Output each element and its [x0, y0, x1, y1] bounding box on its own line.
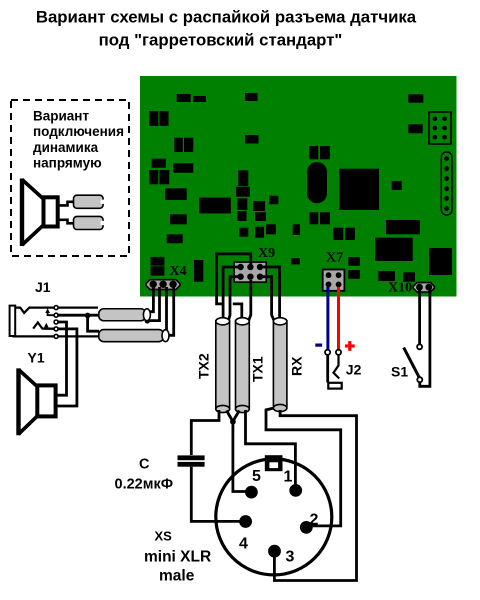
svg-text:1: 1: [284, 469, 293, 486]
blue wire X7 to J2 minus: [326, 287, 329, 350]
XLR pin 4: [239, 515, 252, 528]
svg-text:подключения: подключения: [33, 124, 124, 139]
wire X4 pin1 to sleeve 1: [148, 287, 153, 312]
svg-text:Вариант схемы с распайкой разъ: Вариант схемы с распайкой разъема датчик…: [36, 8, 417, 27]
S1 top contact circle: [417, 344, 422, 349]
junction dot below TX2/TX1: [230, 419, 236, 425]
wire sleeve 2 (to X4): [99, 330, 169, 342]
label minus: [315, 344, 322, 347]
svg-text:3: 3: [286, 549, 295, 566]
XLR pin 5: [245, 486, 258, 499]
J2 plug tip wire zigzag: [334, 355, 340, 379]
wire X10 right pin down to S1 return: [420, 289, 430, 386]
capacitor C1 plates: [178, 455, 205, 460]
SIL header right edge: [441, 152, 452, 215]
svg-text:динамика: динамика: [33, 140, 99, 155]
wire J1 contact 4 to speaker Y1 bottom: [56, 329, 77, 406]
wire capacitor to XLR pin 4: [191, 467, 240, 522]
wire junction down to sleeve 2: [88, 316, 99, 332]
PCB components (SMD parts): [149, 93, 452, 282]
wire X4 pin2b to sleeve 2 top: [165, 287, 168, 330]
svg-text:Вариант: Вариант: [33, 108, 89, 123]
wire continuation to TX1 after crossing gap: [233, 304, 242, 318]
wire J1 contact 2 to junction and sleeve 1: [58, 314, 98, 317]
wire TX2 right lead to junction: [227, 411, 232, 420]
wire X4 pin3 to sleeve 2: [168, 287, 174, 335]
red wire X7 to J2 plus: [337, 287, 340, 350]
svg-text:TX1: TX1: [250, 356, 266, 382]
dashed option box: [11, 100, 129, 256]
svg-text:mini XLR: mini XLR: [144, 549, 211, 566]
wire TX1 left lead to junction: [234, 411, 239, 420]
speaker terminal leads: [58, 202, 75, 206]
svg-text:X9: X9: [258, 246, 275, 261]
J1 bottom sleeve line: [12, 335, 99, 337]
J1 jack body bar: [10, 306, 16, 336]
wire X9 pin top-middle loop to TX1: [217, 254, 251, 304]
IC U2: [199, 198, 230, 214]
S1 lever: [404, 348, 420, 378]
J1 switch arrow 1: [48, 311, 54, 315]
junction dot near J1: [85, 313, 91, 319]
connector X4: [146, 280, 180, 290]
J2 minus terminal circle: [325, 350, 330, 355]
connector X9: [234, 262, 266, 282]
XLR pin 2: [300, 521, 313, 534]
svg-text:J1: J1: [35, 279, 51, 295]
cable sleeve TX1: [236, 318, 250, 413]
wire RX right lead to XLR pin 3: [274, 410, 356, 581]
wire RX left lead to XLR pin 2: [266, 408, 341, 526]
svg-text:5: 5: [252, 468, 261, 485]
XLR pin 1: [289, 484, 302, 497]
svg-text:male: male: [159, 568, 195, 585]
wire X9 pin top-right to RX: [260, 267, 280, 319]
svg-text:C: C: [139, 457, 150, 473]
wire X9 pin top-left to TX2: [223, 267, 240, 318]
J2 plus terminal circle: [336, 350, 341, 355]
svg-text:XS: XS: [155, 529, 173, 544]
wire junction to XLR pin 5: [233, 423, 246, 492]
svg-text:напрямую: напрямую: [33, 156, 102, 171]
wire X10 left pin down to S1: [418, 289, 421, 344]
svg-text:TX2: TX2: [196, 353, 212, 379]
connector X10: [413, 283, 434, 292]
cable sleeve RX: [273, 318, 287, 412]
wire X9 pin bottom-left to TX2: [228, 277, 240, 321]
J1 switch arrow 2: [46, 325, 54, 329]
electrolytic capacitor (black can): [307, 162, 327, 203]
connector X7: [323, 270, 345, 291]
svg-text:4: 4: [239, 536, 248, 553]
svg-text:RX: RX: [289, 356, 305, 376]
svg-text:X7: X7: [326, 251, 343, 266]
svg-text:Y1: Y1: [28, 349, 45, 365]
svg-text:J2: J2: [346, 362, 362, 378]
svg-text:2: 2: [310, 512, 319, 529]
wire J1 contact 3 to speaker Y1 top: [56, 322, 67, 395]
J2 plug sleeve bracket: [328, 383, 341, 389]
junction dot at sleeve 1: [145, 318, 150, 323]
speaker Y1: [19, 368, 56, 435]
wire sleeve 1 (to X4): [99, 309, 151, 321]
wire TX2 left lead to capacitor C: [191, 410, 219, 455]
svg-text:X10: X10: [388, 281, 412, 296]
crimp terminal 2: [74, 216, 105, 229]
small speaker icon in box: [22, 179, 58, 247]
svg-text:S1: S1: [391, 363, 408, 379]
wire X9 pin bottom-right to RX: [260, 277, 274, 321]
svg-text:0.22мкФ: 0.22мкФ: [115, 477, 174, 493]
PCB board: [140, 76, 457, 297]
J1 ring contact caret line: [33, 323, 55, 329]
crimp terminal 1: [74, 195, 105, 208]
J1 terminal circles: [54, 306, 58, 339]
J2 plug sleeve wire: [326, 355, 329, 383]
S1 bottom contact circle: [417, 377, 422, 382]
J1 tip contact line to sleeve 1: [15, 308, 98, 313]
XLR pin 3: [268, 545, 281, 558]
big IC U1: [339, 169, 379, 210]
XLR connector circle XS: [216, 459, 332, 575]
svg-text:под "гарретовский стандарт": под "гарретовский стандарт": [99, 31, 343, 50]
wire X4 pin2 to sleeve 1 junction: [149, 287, 160, 321]
XLR key notch: [265, 455, 283, 471]
label plus: [345, 344, 355, 347]
connector header 2x3 top-right: [429, 112, 451, 144]
cable sleeve TX2: [216, 318, 230, 413]
svg-text:X4: X4: [170, 264, 187, 279]
wire TX1 right lead to XLR pin 1: [246, 410, 296, 486]
wire X9 pin bottom-middle to TX1: [249, 280, 251, 321]
